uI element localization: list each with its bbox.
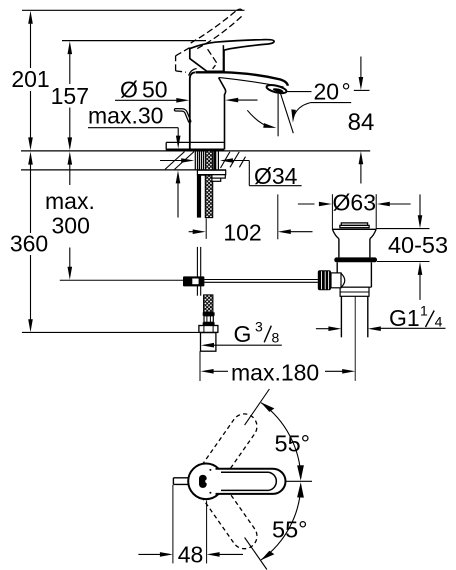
drain Ø63 extension left — [331, 194, 333, 229]
angle leg 20 degrees — [280, 93, 293, 133]
svg-text:84: 84 — [348, 109, 375, 136]
backnut step 1 — [212, 175, 225, 178]
horizontal reference at lever axis — [286, 480, 312, 482]
drain rod knob — [318, 270, 331, 290]
svg-text:55°: 55° — [272, 517, 308, 543]
drain rod collar — [331, 273, 345, 288]
drain centreline — [354, 296, 356, 381]
faucet base plate — [166, 142, 224, 149]
label G1 1/4 — [316, 303, 446, 332]
cartridge dome arc — [189, 69, 197, 76]
faucet centre extension line — [205, 218, 207, 239]
handle pivot circle (top view) — [188, 464, 224, 500]
aerator — [266, 83, 287, 94]
svg-text:360: 360 — [10, 231, 48, 257]
rod connector block — [183, 276, 204, 286]
ref line: closed-handle height reference — [62, 40, 206, 42]
dimension 40-53 — [376, 194, 448, 300]
deck hatch left — [165, 152, 194, 170]
dimension 48 — [138, 485, 243, 568]
svg-text:8: 8 — [272, 330, 280, 346]
faucet body top edge and spout top — [196, 72, 288, 86]
svg-text:4: 4 — [435, 314, 443, 330]
faucet body left edge — [189, 79, 191, 150]
pipe right of hose — [214, 151, 217, 170]
dimension max.300 (to pop-up rod level) — [45, 152, 95, 280]
handle stub left — [173, 478, 190, 485]
deck hatch right — [221, 152, 246, 168]
label 20° (spray angle) — [282, 79, 352, 105]
svg-text:300: 300 — [52, 213, 90, 239]
angle arc left with arrow — [247, 110, 277, 130]
svg-text:1: 1 — [420, 303, 428, 319]
svg-text:3: 3 — [255, 319, 263, 335]
dimension 84 (spout outlet height) — [348, 57, 375, 184]
svg-text:max.: max. — [45, 188, 95, 214]
braided hose upper — [205, 151, 212, 218]
svg-text:20: 20 — [314, 79, 340, 105]
drain Ø63 extension right — [375, 194, 377, 228]
handle (closed position) — [190, 40, 274, 72]
label G3/8 — [201, 319, 282, 348]
svg-text:50: 50 — [142, 77, 168, 103]
extension line 55° upper — [245, 389, 270, 425]
ref line: overall-height top reference — [22, 9, 245, 11]
mounting hole left edge — [194, 151, 196, 170]
handle raised (dashed) — [176, 9, 243, 72]
handle dots — [209, 469, 211, 471]
backnut plate — [197, 170, 225, 175]
svg-text:Ø34: Ø34 — [254, 163, 298, 189]
svg-text:°: ° — [342, 79, 351, 105]
lever inner line — [221, 472, 276, 490]
svg-text:40-53: 40-53 — [388, 232, 448, 258]
logo capsule — [199, 475, 209, 488]
deck top line — [21, 150, 370, 152]
pop-up rod hook at body rear — [176, 110, 190, 121]
drain tailpipe G1 1/4 — [341, 296, 367, 337]
extension line 55° lower — [245, 538, 267, 570]
dashed handle rotated down 55° — [202, 483, 262, 554]
svg-text:G1: G1 — [389, 305, 420, 331]
svg-text:Ø: Ø — [120, 77, 138, 103]
supply thread stub — [201, 333, 216, 352]
spout inner edge — [219, 78, 226, 150]
dimension max.180 — [201, 359, 356, 385]
angle arc right with arrow (from 20° label) — [291, 103, 310, 123]
supply nut G3/8 — [199, 326, 218, 333]
extension line left for max.180 — [199, 351, 201, 381]
dimension 201 (overall height) — [11, 11, 49, 151]
pop-up pull rod — [197, 247, 200, 296]
svg-text:G: G — [234, 321, 252, 347]
arrow at spout inner edge — [225, 98, 257, 103]
handle lever (top view) — [216, 469, 286, 494]
dimension 102 — [189, 220, 313, 246]
spout crease line — [219, 77, 284, 87]
drain gasket — [334, 257, 377, 262]
dimension 360 (total height to supply end) — [10, 152, 48, 333]
dashed handle rotated up 55° — [202, 409, 262, 480]
svg-text:max.30: max.30 — [88, 103, 163, 129]
label Ø50 (body diameter) — [115, 77, 189, 103]
mounting hole right edge — [217, 151, 219, 170]
threaded stud under deck — [198, 151, 204, 170]
deck bottom line — [21, 169, 226, 171]
dimension Ø34 (mounting hole) — [160, 158, 302, 189]
svg-text:48: 48 — [178, 542, 204, 568]
arc 55° upper with arrows — [259, 401, 304, 481]
ref line at supply end — [22, 331, 199, 333]
svg-text:201: 201 — [11, 66, 49, 92]
drain pop-up cap — [340, 223, 369, 228]
dimension 157 (spout height) — [51, 41, 89, 150]
mounting stud below deck — [197, 175, 201, 218]
drain flange — [332, 229, 376, 257]
angle leg vertical — [277, 94, 279, 137]
svg-text:Ø63: Ø63 — [333, 190, 376, 216]
ref line at rod level — [60, 279, 183, 281]
hose fitting — [203, 312, 215, 325]
faucet body top-left corner — [190, 72, 195, 79]
drain body — [337, 262, 371, 287]
horizontal pop-up rod — [204, 280, 318, 283]
svg-text:102: 102 — [223, 220, 261, 246]
svg-text:55°: 55° — [275, 431, 311, 457]
drain coupling ring — [340, 287, 369, 296]
arc 55° lower with arrows — [259, 482, 304, 562]
braided hose lower — [204, 295, 213, 312]
svg-text:max.180: max.180 — [231, 359, 319, 385]
dimension Ø63 — [298, 190, 411, 216]
label max.30 (deck thickness) — [88, 103, 181, 218]
backnut step 2 — [212, 178, 221, 181]
svg-text:157: 157 — [51, 83, 89, 109]
extension line right of 102 — [277, 194, 279, 239]
